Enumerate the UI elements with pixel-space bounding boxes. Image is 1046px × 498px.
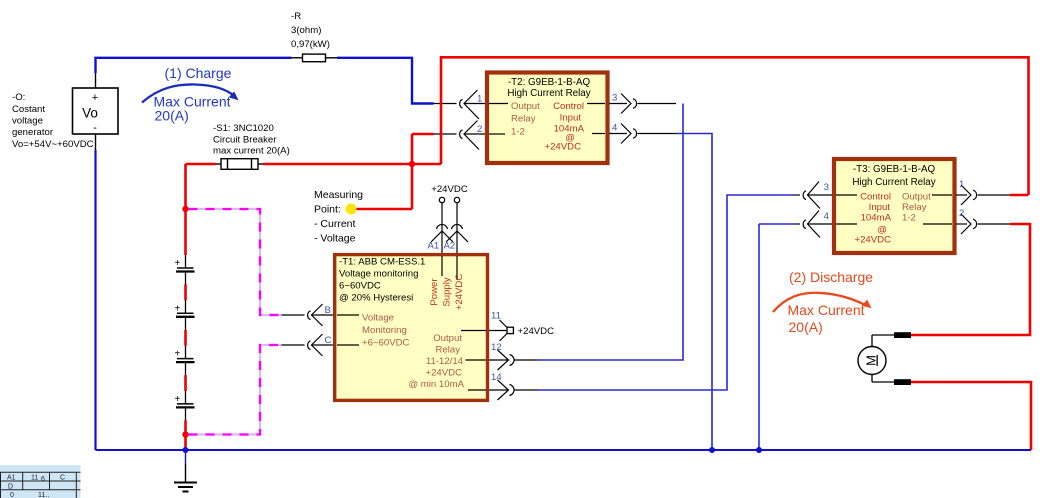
- pin B connector: [282, 304, 360, 326]
- T3 labels: [852, 164, 935, 246]
- svg-text:20(A): 20(A): [155, 108, 189, 124]
- svg-text:Control: Control: [553, 101, 584, 112]
- junction dot battery bottom tap: [182, 431, 188, 437]
- svg-text:-S1: 3NC1020: -S1: 3NC1020: [213, 123, 274, 134]
- svg-text:11: 11: [31, 475, 38, 482]
- svg-text:A2: A2: [444, 241, 456, 252]
- T3 pin 2 connector: [923, 214, 1010, 234]
- svg-text:+24VDC: +24VDC: [854, 235, 891, 246]
- svg-text:0: 0: [10, 492, 14, 498]
- svg-text:C: C: [325, 335, 332, 346]
- svg-text:+6~60VDC: +6~60VDC: [362, 338, 410, 349]
- T1 pin 12 connector: [466, 342, 539, 370]
- T1 pin 11 terminal: [461, 311, 554, 342]
- relay T2 box: [487, 73, 608, 164]
- svg-text:voltage: voltage: [12, 116, 43, 127]
- wire: blue T1-14 to T3-3: [538, 195, 793, 390]
- svg-text:- Current: - Current: [314, 218, 356, 230]
- breaker S1: [216, 159, 263, 170]
- pin C connector: [282, 334, 360, 356]
- resistor label: [291, 11, 330, 50]
- wire: blue T1-12 to T2-3: [538, 104, 683, 361]
- svg-text:+24VDC: +24VDC: [431, 184, 468, 195]
- svg-text:Output: Output: [511, 101, 540, 112]
- svg-text:12: 12: [491, 342, 502, 353]
- svg-text:+: +: [175, 349, 181, 360]
- wire: blue T2-4 to bottom rail: [676, 134, 712, 451]
- svg-text:Relay: Relay: [511, 114, 536, 125]
- svg-text:Control: Control: [860, 192, 891, 203]
- svg-text:Max Current: Max Current: [788, 302, 865, 318]
- svg-text:+: +: [175, 303, 181, 314]
- T2 labels: [507, 77, 590, 153]
- pin A2 connector: [446, 203, 468, 280]
- svg-text:20(A): 20(A): [789, 319, 823, 335]
- measuring point: [314, 189, 363, 245]
- generator O box: [73, 88, 119, 134]
- battery cell 2: [175, 301, 195, 330]
- wire: dashed sense top (to B): [189, 209, 282, 315]
- wire: battery red column: [184, 164, 187, 450]
- svg-text:Costant: Costant: [12, 104, 45, 115]
- svg-text:M: M: [864, 355, 879, 366]
- discharge annotation: [773, 269, 873, 335]
- svg-text:Supply: Supply: [442, 277, 453, 307]
- junction dot bottom rail at battery column: [183, 447, 189, 453]
- svg-text:+24VDC: +24VDC: [454, 274, 465, 311]
- svg-text:3(ohm): 3(ohm): [291, 25, 321, 36]
- T1 labels: [339, 257, 465, 391]
- T3 pin 4 connector: [795, 211, 857, 238]
- T3 pin 3 connector: [793, 182, 857, 209]
- breaker S1 label: [213, 123, 290, 157]
- svg-text:(1) Charge: (1) Charge: [165, 65, 232, 81]
- svg-text:6: 6: [41, 476, 45, 483]
- svg-text:4: 4: [824, 211, 830, 222]
- svg-text:Circuit Breaker: Circuit Breaker: [213, 135, 277, 146]
- svg-text:Relay: Relay: [902, 202, 927, 213]
- svg-text:Voltage monitoring: Voltage monitoring: [339, 269, 418, 280]
- voltage monitor T1 box: [335, 255, 488, 401]
- svg-text:Input: Input: [560, 113, 582, 124]
- svg-text:D: D: [8, 484, 13, 491]
- svg-text:14: 14: [491, 372, 502, 383]
- svg-text:+: +: [175, 258, 181, 269]
- svg-text:Vo=+54V~+60VDC: Vo=+54V~+60VDC: [12, 139, 94, 150]
- svg-text:-R: -R: [291, 11, 301, 22]
- T1 pin 14 connector: [468, 372, 538, 400]
- T3 pin 1 connector: [932, 185, 1010, 205]
- svg-text:+: +: [92, 92, 98, 104]
- svg-text:4: 4: [612, 123, 618, 134]
- junction node S1 to T2-2: [409, 161, 415, 167]
- wire: bottom blue rail: [96, 449, 1032, 451]
- svg-text:+24VDC: +24VDC: [425, 368, 462, 379]
- svg-text:1-2: 1-2: [902, 213, 916, 224]
- svg-text:C: C: [60, 475, 65, 482]
- svg-text:High Current Relay: High Current Relay: [852, 177, 935, 188]
- svg-text:6~60VDC: 6~60VDC: [339, 281, 381, 292]
- T2 pin 2 connector: [460, 121, 505, 150]
- wire: top blue rail: [96, 58, 434, 104]
- svg-text:Power: Power: [429, 278, 440, 306]
- svg-text:-T3: G9EB-1-B-AQ: -T3: G9EB-1-B-AQ: [853, 164, 936, 175]
- wire: black stubs at Vo: [95, 73, 97, 150]
- svg-text:High Current Relay: High Current Relay: [507, 88, 590, 99]
- svg-text:A1: A1: [7, 475, 16, 482]
- svg-text:-T1: ABB CM-ESS.1: -T1: ABB CM-ESS.1: [339, 257, 425, 268]
- svg-text:max current 20(A): max current 20(A): [213, 146, 290, 157]
- battery cell 4: [175, 391, 195, 420]
- svg-text:+24VDC: +24VDC: [518, 326, 555, 337]
- title block table: [0, 465, 81, 498]
- svg-text:1: 1: [477, 94, 482, 105]
- svg-text:11: 11: [491, 311, 501, 322]
- svg-text:11-12/14: 11-12/14: [426, 356, 464, 367]
- svg-text:Vo: Vo: [82, 106, 98, 121]
- charge annotation: [142, 65, 239, 124]
- wire: red charge loop: [186, 57, 1029, 209]
- svg-text:11..: 11..: [38, 492, 49, 498]
- +24VDC terminals above A1 A2: [431, 184, 468, 203]
- svg-text:1-2: 1-2: [511, 127, 525, 138]
- svg-text:-O:: -O:: [12, 92, 25, 103]
- T2 pin 4 connector: [592, 124, 676, 144]
- svg-text:@ min 10mA: @ min 10mA: [408, 379, 464, 390]
- svg-text:-T2: G9EB-1-B-AQ: -T2: G9EB-1-B-AQ: [508, 77, 591, 88]
- T2 pin 3 connector: [587, 94, 676, 114]
- svg-text:1: 1: [959, 179, 964, 190]
- svg-text:2: 2: [959, 208, 964, 219]
- svg-text:-: -: [93, 122, 97, 134]
- svg-text:104mA: 104mA: [861, 213, 892, 224]
- svg-text:0,97(kW): 0,97(kW): [291, 39, 330, 50]
- T2 pin 1 connector: [460, 90, 508, 119]
- resistor R: [292, 54, 338, 62]
- svg-text:- Voltage: - Voltage: [314, 233, 356, 245]
- junction dot battery top tap: [182, 206, 188, 212]
- svg-text:A1: A1: [428, 241, 440, 252]
- svg-text:2: 2: [477, 124, 482, 135]
- svg-text:Monitoring: Monitoring: [362, 325, 407, 336]
- svg-text:Input: Input: [869, 202, 891, 213]
- svg-text:Measuring: Measuring: [314, 189, 363, 201]
- svg-text:(2) Discharge: (2) Discharge: [789, 269, 873, 285]
- wire: blue T3-4 to bottom rail: [759, 224, 795, 450]
- wire: red discharge top (T3-1 up to rail): [1010, 194, 1029, 197]
- svg-text:3: 3: [612, 93, 617, 104]
- svg-text:Relay: Relay: [435, 345, 460, 356]
- junction dot bottom rail at T2-4 drop: [709, 447, 715, 453]
- svg-text:Point:: Point:: [314, 204, 341, 216]
- svg-text:+24VDC: +24VDC: [544, 142, 581, 153]
- svg-text:3: 3: [824, 182, 829, 193]
- svg-text:generator: generator: [12, 127, 54, 138]
- svg-text:B: B: [325, 305, 331, 316]
- wire: leads to T2 pins 1,2: [434, 104, 457, 135]
- svg-text:+: +: [175, 394, 181, 405]
- svg-text:Voltage: Voltage: [362, 313, 394, 324]
- pin A1 connector: [431, 203, 453, 276]
- motor M: [858, 332, 911, 385]
- wire: red discharge to motor: [911, 224, 1031, 450]
- relay T3 box: [834, 159, 955, 253]
- battery cell 1: [175, 255, 195, 285]
- svg-text:Output: Output: [902, 192, 931, 203]
- wire: left blue rail: [94, 150, 96, 450]
- svg-text:Output: Output: [433, 333, 462, 344]
- svg-text:@ 20% Hysteresi: @ 20% Hysteresi: [339, 293, 413, 304]
- ground: [174, 450, 197, 492]
- junction dot bottom rail at T3-4 drop: [756, 447, 762, 453]
- battery cell 3: [175, 346, 195, 375]
- wire: dashed sense bottom (to C): [189, 345, 282, 435]
- generator label: [12, 92, 94, 150]
